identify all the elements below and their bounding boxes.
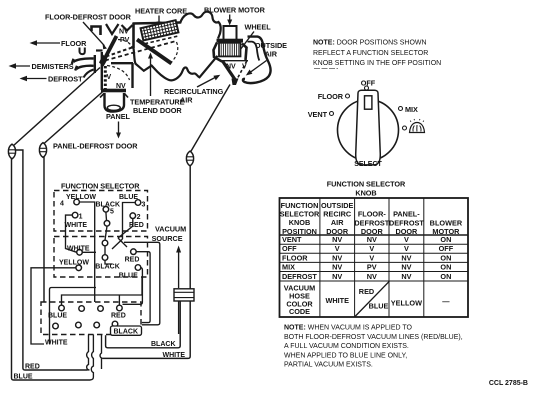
port 1 [72, 212, 78, 218]
svg-text:V: V [404, 244, 409, 253]
hose to recirc door [191, 85, 230, 152]
svg-text:VENT: VENT [308, 110, 328, 119]
svg-text:RED: RED [111, 313, 126, 320]
svg-text:A FULL VACUUM CONDITION EXISTS: A FULL VACUUM CONDITION EXISTS. [284, 343, 409, 350]
vacuum table grid [280, 198, 469, 317]
pointer to wheel [240, 32, 254, 51]
wire port4 to black vertical [79, 202, 94, 302]
wire port3 elbow down [123, 203, 136, 240]
svg-text:BLOWERMOTOR: BLOWERMOTOR [430, 218, 463, 236]
recirc pointer arrow [197, 77, 216, 87]
svg-text:NV: NV [332, 263, 342, 272]
blower motor body [224, 26, 237, 40]
panel outlet lip ticks [100, 94, 128, 98]
svg-text:—: — [442, 297, 450, 306]
connector on recirc hose [186, 151, 194, 166]
RIGHT-SIDE [280, 40, 529, 388]
wire blue port elbow [123, 268, 143, 305]
svg-text:WHITE: WHITE [325, 296, 349, 305]
heater core (hatched) [141, 20, 180, 45]
svg-text:2: 2 [137, 214, 141, 221]
svg-text:MIX: MIX [405, 105, 418, 114]
lower box port t2 [79, 306, 85, 312]
svg-text:PANEL-DEFROST DOOR: PANEL-DEFROST DOOR [53, 142, 138, 151]
svg-text:VENT: VENT [282, 235, 302, 244]
table row vacuum hose color code [284, 284, 450, 317]
svg-text:ON: ON [440, 235, 451, 244]
blue drop with slack squiggles [90, 335, 93, 380]
duct mouth wall [101, 52, 103, 90]
selector middle dashed box [54, 237, 148, 278]
table row FLOOR [282, 253, 451, 262]
wire center to mid ports [105, 226, 107, 255]
svg-text:YELLOW: YELLOW [59, 260, 89, 267]
svg-text:RED: RED [25, 363, 40, 370]
housing left wall [214, 43, 223, 62]
panel pointer arrow [118, 122, 120, 135]
svg-text:PV: PV [367, 263, 377, 272]
svg-text:5: 5 [110, 209, 114, 216]
svg-text:V: V [335, 244, 340, 253]
svg-text:FLOOR-DEFROST DOOR: FLOOR-DEFROST DOOR [45, 13, 132, 22]
svg-text:WHEEL: WHEEL [245, 23, 272, 32]
svg-text:FUNCTIONSELECTORKNOBPOSITION: FUNCTIONSELECTORKNOBPOSITION [280, 201, 320, 236]
floor-defrost door (thick) [104, 36, 117, 60]
svg-text:NOTE: DOOR POSITIONS SHOWN: NOTE: DOOR POSITIONS SHOWN [313, 40, 427, 47]
note: door positions [313, 40, 441, 69]
svg-text:NV: NV [367, 235, 377, 244]
panel door closed bar (thick) [101, 89, 126, 93]
blower mount plate [217, 39, 244, 43]
lower box port t4 [117, 305, 123, 311]
svg-text:RED: RED [129, 222, 144, 229]
svg-text:NV: NV [401, 272, 411, 281]
LEFT-DIAGRAM [9, 6, 288, 151]
housing right wall [242, 44, 247, 61]
svg-text:DEFROST: DEFROST [48, 75, 83, 84]
svg-text:FLOOR: FLOOR [61, 39, 87, 48]
panel duct top wall [111, 62, 133, 64]
heater box left wall [132, 23, 135, 48]
svg-text:FUNCTION SELECTOR: FUNCTION SELECTOR [327, 180, 406, 189]
recirc door shelf [222, 60, 248, 62]
svg-text:MIX: MIX [282, 263, 295, 272]
port white [77, 250, 83, 256]
svg-text:BLUE: BLUE [369, 302, 389, 311]
wire lower box top run [62, 278, 143, 306]
recirc door alternate (dashed V) [236, 61, 247, 81]
white hose run to recirc connector [103, 166, 191, 359]
port 4 [74, 199, 80, 205]
red hose run (left) [15, 150, 87, 370]
svg-text:WHITE: WHITE [45, 340, 68, 347]
red/blue diagonal divider [355, 281, 389, 316]
wire yellow port left run [31, 268, 76, 344]
svg-text:PANEL: PANEL [106, 112, 131, 121]
svg-text:REFLECT A FUNCTION SELECTOR: REFLECT A FUNCTION SELECTOR [313, 50, 428, 57]
svg-text:RED: RED [125, 257, 140, 264]
door swing dashes [106, 48, 132, 57]
outside air inlet nub and scroll [243, 37, 271, 83]
svg-text:NV: NV [401, 263, 411, 272]
housing bottom outline [134, 48, 218, 80]
svg-text:BLACK: BLACK [96, 202, 121, 209]
svg-text:YELLOW: YELLOW [66, 194, 96, 201]
mouth top stub [96, 49, 103, 51]
svg-text:KNOB SETTING IN THE OFF POSITI: KNOB SETTING IN THE OFF POSITION [313, 60, 441, 67]
floor-defrost outlet walls [92, 27, 101, 36]
svg-text:FLOOR: FLOOR [282, 253, 308, 262]
table row MIX [282, 263, 451, 272]
svg-text:1: 1 [79, 214, 83, 221]
svg-text:WHITE: WHITE [163, 352, 186, 359]
svg-text:OFF: OFF [282, 244, 297, 253]
demister upper prong [72, 58, 94, 64]
svg-text:DEFROST: DEFROST [282, 272, 317, 281]
door apex joint [232, 79, 239, 86]
svg-text:BLACK: BLACK [95, 263, 120, 270]
svg-text:OFF: OFF [439, 244, 454, 253]
svg-text:SELECT: SELECT [354, 161, 382, 168]
svg-text:BLUE: BLUE [48, 313, 67, 320]
port blue [135, 265, 141, 271]
svg-text:NOTE: WHEN VACUUM IS APPLIED T: NOTE: WHEN VACUUM IS APPLIED TO [284, 325, 413, 332]
svg-text:4: 4 [60, 201, 64, 208]
svg-text:BLACK: BLACK [114, 329, 139, 336]
svg-text:FUNCTION SELECTOR: FUNCTION SELECTOR [61, 182, 140, 191]
svg-text:V: V [242, 64, 247, 71]
inlet inner wall [248, 42, 260, 61]
position DEFROST icon [403, 126, 407, 130]
blend door alternate position dashes [105, 41, 176, 61]
svg-text:BLUE: BLUE [14, 373, 33, 380]
wire port1 elbow [66, 215, 77, 252]
port 3 [135, 200, 141, 206]
svg-text:NV: NV [332, 272, 342, 281]
panel duct right wall [131, 63, 133, 88]
svg-text:BLACK: BLACK [151, 341, 176, 348]
wire port2 down [118, 219, 133, 239]
wire crossing to right drop [124, 242, 160, 324]
recirculating air door (thick solid NV) [223, 61, 236, 81]
svg-text:V: V [404, 235, 409, 244]
panel outlet opening [107, 105, 120, 110]
svg-text:SOURCE: SOURCE [152, 234, 183, 243]
svg-text:BLOWER MOTOR: BLOWER MOTOR [204, 6, 266, 15]
svg-text:ON: ON [440, 263, 451, 272]
hose to panel-defrost door [44, 91, 104, 144]
demister mouth inner bar [94, 55, 96, 73]
lower box port b1 [53, 323, 59, 329]
table row VENT [282, 235, 451, 244]
note: when vacuum is applied [284, 325, 463, 369]
hose to demister door [13, 68, 100, 147]
svg-text:NV: NV [119, 29, 129, 36]
table row OFF [282, 244, 454, 253]
svg-text:NV: NV [332, 253, 342, 262]
svg-text:PARTIAL VACUUM EXISTS.: PARTIAL VACUUM EXISTS. [284, 362, 373, 369]
svg-text:ON: ON [440, 272, 451, 281]
svg-text:NV: NV [332, 235, 342, 244]
svg-text:WHEN APPLIED TO BLUE LINE ONLY: WHEN APPLIED TO BLUE LINE ONLY, [284, 352, 407, 359]
svg-text:BOTH FLOOR-DEFROST VACUUM LINE: BOTH FLOOR-DEFROST VACUUM LINES (RED/BLU… [284, 334, 463, 341]
selector knob dial [338, 100, 399, 161]
lower box port b4 [112, 321, 118, 327]
wire red port to right drop [136, 252, 150, 323]
connector on panel-defrost hose [39, 143, 47, 158]
port mid-b [102, 255, 108, 261]
port red [131, 249, 137, 255]
pointer to blower motor [229, 15, 231, 22]
svg-text:WHITE: WHITE [67, 246, 90, 253]
wire port stub [118, 295, 120, 305]
demister middle prong [75, 66, 93, 71]
selector lower dashed box [41, 302, 141, 335]
blend door pointer arrow [150, 57, 152, 97]
pointer to heater core [158, 16, 160, 24]
table header texts [280, 201, 463, 236]
housing top cloud outline [180, 12, 221, 39]
lower box port b2 [76, 322, 82, 328]
svg-text:BLEND DOOR: BLEND DOOR [133, 106, 182, 115]
selector upper dashed box [54, 191, 148, 232]
door pivot blob [99, 55, 108, 67]
svg-text:WHITE: WHITE [65, 222, 88, 229]
svg-text:BLUE: BLUE [119, 273, 138, 280]
pointer outside air [250, 61, 267, 73]
yellow hose from selector [43, 157, 45, 303]
port mid-a [102, 240, 108, 246]
vacuum source arrow [178, 250, 180, 288]
outlet V notch [106, 24, 119, 34]
port yellow [76, 265, 82, 271]
heater box top wall [133, 23, 181, 24]
svg-text:DEMISTERS: DEMISTERS [32, 62, 74, 71]
blend door swing arc [172, 42, 178, 62]
port 5 [103, 207, 109, 213]
knob slot [365, 96, 372, 109]
svg-text:ON: ON [440, 253, 451, 262]
svg-text:VACUUM: VACUUM [155, 225, 186, 234]
svg-text:3: 3 [142, 202, 146, 209]
svg-text:KNOB: KNOB [355, 189, 376, 198]
svg-text:FLOOR: FLOOR [318, 92, 344, 101]
demister lower prong [84, 70, 94, 78]
svg-text:NV: NV [401, 253, 411, 262]
svg-text:NV: NV [367, 272, 377, 281]
boxed label BLACK [111, 326, 142, 335]
connector on floor-defrost hoses [8, 144, 16, 159]
port 2 [130, 213, 136, 219]
pointer to floor-defrost door [83, 22, 105, 46]
panel-defrost door (dotted vertical) [104, 66, 107, 89]
svg-text:YELLOW: YELLOW [391, 299, 422, 308]
white drop squiggle [100, 335, 102, 370]
crossing wires [112, 238, 127, 249]
blower wheel (striped) [219, 43, 241, 57]
core bottom dashes [145, 36, 179, 44]
wire port5 to center port [105, 212, 108, 220]
lower box port b3 [94, 322, 100, 328]
svg-text:CCL 2785-B: CCL 2785-B [489, 380, 528, 387]
vacuum check valve coupler [174, 289, 194, 334]
svg-text:RECIRCULATING: RECIRCULATING [164, 87, 224, 96]
temperature blend door (thick) [137, 40, 172, 64]
lower box port t3 [98, 306, 104, 312]
wire left riser to lower box [50, 288, 97, 345]
svg-text:HEATER CORE: HEATER CORE [135, 7, 187, 16]
svg-text:OFF: OFF [361, 79, 376, 88]
wire white port stub [82, 252, 112, 264]
red drop with slack squiggles [87, 335, 90, 371]
port center [104, 221, 110, 227]
floor outlet duct cup [80, 48, 85, 55]
table row DEFROST [282, 272, 451, 281]
svg-text:BLUE: BLUE [119, 194, 138, 201]
outlet right corner [122, 25, 133, 31]
lower box port t1 [59, 305, 65, 311]
svg-text:RED: RED [359, 287, 374, 296]
knob handle [356, 90, 381, 165]
blue hose run (left) [12, 159, 91, 381]
panel outlet U duct [105, 93, 125, 112]
svg-text:V: V [107, 74, 112, 81]
black hose run to vacuum source [106, 301, 181, 348]
svg-text:V: V [369, 244, 374, 253]
panel door swing arc [107, 66, 130, 81]
svg-text:V: V [369, 253, 374, 262]
svg-text:NV: NV [226, 64, 236, 71]
